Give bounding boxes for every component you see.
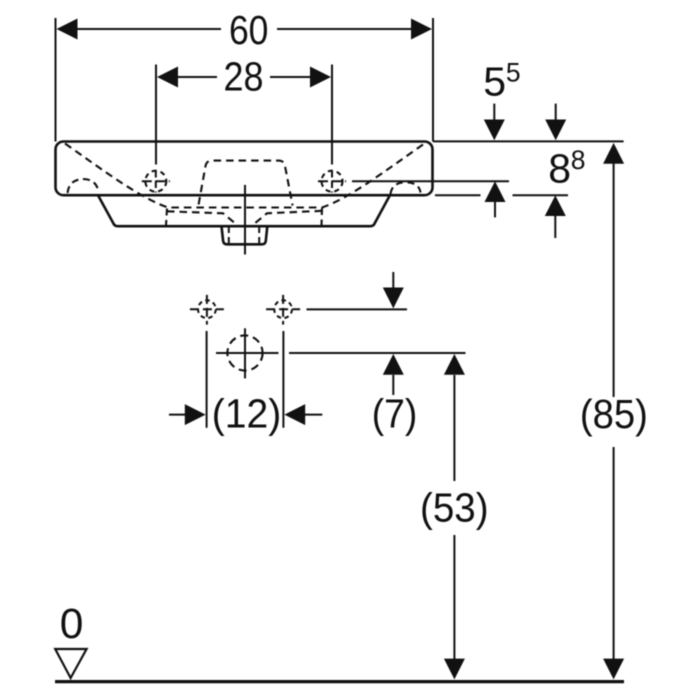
svg-text:5: 5 [483,59,506,105]
top surface reference line [433,140,624,142]
datum level triangle [55,649,86,678]
drain outlet [222,226,268,244]
dimension 53 vertical line [453,375,455,660]
dimension 5.5 down arrow [484,104,505,141]
dimension 28 arrow left [157,67,178,88]
wall mounting hole left dashed circle [198,300,216,318]
washbasin lower body outline [98,195,390,226]
svg-text:5: 5 [506,58,521,88]
dimension 28 arrow right [310,67,331,88]
overflow dashed arch left [68,179,99,193]
dimension 60 line [76,28,412,30]
svg-text:0: 0 [60,601,84,648]
dimension 60 extension line left [55,18,57,142]
wall mounting hole left crosshair [190,295,224,325]
dimension 12 extension line left [206,331,208,428]
svg-text:(12): (12) [212,391,282,437]
basin floor dashed right connector [320,208,323,226]
floor line [55,680,624,683]
dimension 60 extension line right [432,18,434,142]
basin floor dashed lower line right + funnel [252,211,323,226]
washbasin rim outline [56,142,433,196]
wall mounting hole right dashed circle [274,300,292,318]
dimension 12 left arrow [169,404,206,425]
svg-text:28: 28 [224,54,264,100]
dimension 12 right arrow [284,404,322,425]
svg-text:(85): (85) [580,391,648,437]
basin floor dashed lower line left + funnel [167,211,239,226]
dimension 28 extension line right [331,65,333,165]
faucet hole right crosshair [318,171,346,193]
svg-text:8: 8 [571,145,586,175]
faucet level reference line [352,180,509,182]
faucet hole left crosshair [142,171,170,193]
dimension 85 vertical line [613,163,615,660]
rim bottom reference line [435,194,481,196]
drain trap vertical centerline [244,328,246,378]
drain trap dashed circle [227,335,262,370]
dimension 60 arrow left [57,19,78,40]
dimension 53 up arrow [444,354,465,375]
trap level reference line [216,352,279,354]
svg-text:8: 8 [548,146,571,192]
svg-text:60: 60 [229,7,269,53]
dimension 12 extension line right [282,331,284,428]
mounting hole level reference line [307,308,408,310]
dimension 8.8 down arrow [545,104,566,141]
dimension 28 extension line left [155,65,157,165]
faucet hole right dashed circle [322,171,343,192]
dimension 8.8 up arrow [545,195,566,238]
overflow dashed arch right [391,182,421,194]
dimension 7 down arrow [383,272,404,308]
dimension 28 line [177,76,312,78]
faucet hole left dashed circle [145,171,166,192]
dimension 85 up arrow [603,143,624,164]
drain interior dashed walls [229,227,259,244]
svg-text:(53): (53) [420,484,489,530]
dimension 60 arrow right [411,19,432,40]
dimension 85 down arrow [603,659,624,680]
dimension 53 down arrow [444,659,465,680]
basin floor dashed left connector [166,209,167,226]
svg-text:(7): (7) [372,391,418,437]
tap platform dashed box [199,161,293,206]
wall mounting hole right crosshair [266,295,300,325]
basin interior dashed profile curve [65,144,423,208]
center axis line [244,185,246,255]
dimension 5.5 up arrow [485,181,506,217]
dimension 7 up arrow [383,354,404,395]
